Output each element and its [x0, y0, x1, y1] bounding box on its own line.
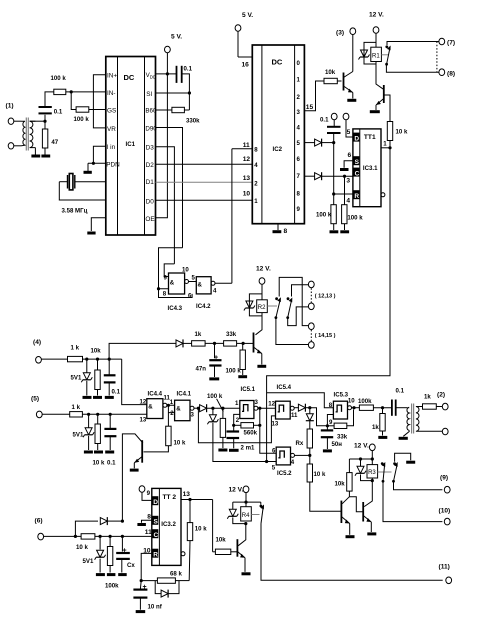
svg-text:&: &	[198, 282, 203, 289]
node junction	[43, 120, 46, 123]
svg-text:10: 10	[243, 191, 251, 198]
svg-text:S: S	[154, 519, 159, 526]
wire	[14, 120, 22, 122]
terminal (4)	[33, 339, 68, 363]
wire cap to 100k	[45, 92, 54, 107]
flip-flop IC3.1	[353, 129, 385, 207]
resistor 1k input4	[68, 345, 83, 362]
node junction	[244, 522, 247, 525]
svg-text:R2: R2	[258, 305, 266, 311]
svg-text:100k: 100k	[105, 583, 119, 590]
svg-text:B60: B60	[145, 107, 157, 114]
svg-text:IC5.4: IC5.4	[277, 384, 292, 391]
svg-text:&: &	[176, 406, 181, 413]
transistor Q5 R4 driver	[237, 524, 245, 572]
ground 100k	[238, 375, 247, 378]
svg-text:(1): (1)	[6, 103, 14, 110]
svg-text:8: 8	[147, 513, 151, 520]
transistor Q3 R2 driver	[243, 333, 262, 365]
svg-text:10 k: 10 k	[195, 526, 207, 533]
svg-text:12 V.: 12 V.	[354, 443, 369, 450]
svg-text:C: C	[154, 532, 159, 539]
capacitor 0.1 coupling	[392, 388, 407, 416]
resistor 10k base R1 driver	[324, 69, 342, 84]
wire	[30, 120, 45, 122]
resistor 100k on IN-	[51, 75, 67, 95]
ground PDN	[84, 171, 92, 174]
svg-text:10 nf: 10 nf	[148, 604, 163, 611]
pin 15 wire	[304, 81, 324, 111]
node junction	[242, 342, 245, 345]
resistor 10k input5	[93, 414, 105, 466]
wire jog to pin9 node	[310, 408, 328, 426]
svg-text:0.1: 0.1	[184, 66, 193, 73]
capacitor 0.1 input5	[104, 414, 116, 466]
ground	[84, 451, 93, 454]
terminal circle (1) bottom	[8, 143, 14, 149]
relay R4 link	[251, 514, 259, 516]
node junction	[188, 91, 191, 94]
ground	[87, 232, 95, 235]
ground Q5	[242, 572, 251, 575]
svg-text:0.1: 0.1	[320, 117, 329, 124]
svg-text:0.1: 0.1	[107, 460, 116, 467]
svg-text:DC: DC	[272, 58, 283, 67]
svg-text:10k: 10k	[216, 537, 227, 544]
12V supply circle R3	[354, 443, 375, 465]
resistor 1k series	[192, 331, 206, 346]
svg-text:(7): (7)	[447, 40, 455, 47]
svg-text:13: 13	[243, 175, 251, 182]
node junction	[166, 72, 169, 75]
transistor Q6	[341, 497, 363, 535]
node junction	[99, 535, 102, 538]
svg-text:(8): (8)	[447, 71, 455, 78]
node junction	[108, 358, 111, 361]
svg-text:4: 4	[254, 162, 258, 169]
ground	[340, 230, 349, 233]
node junction	[211, 407, 214, 410]
capacitor 2m1	[227, 432, 256, 452]
svg-text:5 V.: 5 V.	[242, 12, 253, 19]
svg-text:8: 8	[163, 291, 167, 298]
wire Q rail down	[267, 148, 390, 462]
resistor 10k collector load	[335, 459, 353, 497]
svg-text:(10): (10)	[439, 508, 451, 515]
svg-text:12 V.: 12 V.	[256, 266, 271, 273]
resistor 100k left	[316, 205, 336, 230]
wire	[87, 163, 89, 171]
svg-text:100 k: 100 k	[226, 368, 242, 375]
resistor 1k output	[423, 394, 443, 410]
svg-text:D90: D90	[145, 126, 157, 133]
wire to C pin	[95, 535, 152, 537]
ground IC2 pin 8	[273, 224, 288, 235]
wire IN-	[66, 91, 106, 93]
svg-text:GS: GS	[107, 108, 116, 115]
node junction	[258, 424, 261, 427]
relay R1 contact	[385, 42, 439, 73]
wire Vdd	[156, 73, 177, 75]
relay R3 contact arms	[381, 462, 443, 522]
ground 2m1	[229, 449, 239, 452]
IC5.4 schmitt trigger	[268, 384, 298, 428]
svg-text:47: 47	[51, 139, 58, 146]
ground T primary	[399, 437, 408, 440]
svg-text:C: C	[355, 170, 360, 177]
diode VD R2 clamp	[244, 294, 262, 316]
resistor 100k on GS	[74, 107, 90, 123]
svg-text:R4: R4	[242, 513, 250, 519]
ground	[31, 155, 40, 158]
transistor Q2 R1 driver	[376, 85, 390, 122]
wire	[305, 407, 309, 409]
gate IC4.2	[188, 275, 217, 311]
svg-text:12: 12	[140, 399, 147, 406]
svg-text:(2): (2)	[437, 392, 445, 399]
svg-text:(9): (9)	[440, 475, 448, 482]
node junction	[244, 501, 247, 504]
wire IC5.1 out to IC5.4	[258, 407, 276, 409]
wire R4 top bracket	[233, 501, 261, 503]
ground	[330, 230, 339, 233]
diode VD series K	[200, 404, 207, 412]
node junction	[332, 141, 335, 144]
svg-text:10 k: 10 k	[93, 460, 105, 467]
ground Q6	[346, 535, 355, 538]
svg-text:0.1: 0.1	[112, 389, 121, 396]
resistor 10k base R4	[213, 537, 238, 555]
ground	[41, 155, 50, 158]
flip-flop IC3.2	[152, 488, 185, 565]
svg-text:5: 5	[272, 464, 276, 471]
terminal (7)	[439, 38, 455, 46]
svg-text:5V1: 5V1	[73, 432, 84, 439]
svg-text:IC2: IC2	[273, 146, 283, 153]
svg-text:IC4.4: IC4.4	[148, 391, 163, 398]
ground	[118, 573, 127, 576]
5V supply circle IC2	[235, 12, 253, 69]
svg-text:2: 2	[170, 410, 174, 417]
resistor 10k pullup	[387, 122, 408, 148]
resistor 10k gate pulldown	[144, 426, 186, 452]
svg-text:S: S	[355, 159, 360, 166]
svg-text:12: 12	[268, 401, 275, 408]
zener ZS clamp	[207, 408, 266, 461]
svg-text:68 k: 68 k	[170, 571, 182, 578]
diode VD bypass	[75, 517, 122, 536]
wire Q output pin 1	[381, 141, 390, 148]
node junction	[213, 342, 216, 345]
svg-text:10: 10	[182, 267, 189, 274]
svg-text:10 k: 10 k	[314, 471, 326, 478]
12V supply circle R2	[256, 266, 271, 300]
node junction	[85, 358, 88, 361]
node junction	[109, 413, 112, 416]
svg-text:11: 11	[291, 412, 298, 419]
node junction	[188, 498, 191, 501]
wire GS	[89, 109, 106, 111]
svg-text:5: 5	[347, 129, 351, 136]
svg-text:D: D	[354, 135, 359, 142]
wire	[237, 342, 244, 344]
svg-text:(3): (3)	[336, 30, 344, 37]
svg-text:100 k: 100 k	[207, 393, 223, 400]
wire	[71, 92, 76, 110]
wire to D pin	[346, 120, 353, 137]
resistor 10k timing	[187, 500, 207, 581]
ground 100k	[218, 449, 227, 452]
resistor 100k with leader	[207, 393, 226, 448]
wire to C pin	[322, 175, 353, 177]
svg-text:10 k: 10 k	[76, 544, 88, 551]
svg-text:(6): (6)	[35, 518, 43, 525]
wire osc ground pin	[91, 218, 106, 231]
resistor 100k right	[342, 205, 364, 230]
ground S pin	[340, 152, 353, 170]
svg-text:10 k: 10 k	[396, 129, 408, 136]
terminal (6)	[35, 518, 82, 540]
crystal ZQ 3.58 MHz	[59, 174, 106, 215]
wire D90 net to gate inputs	[159, 248, 193, 298]
wire zener line to pin5	[267, 461, 277, 463]
svg-text:560k: 560k	[244, 430, 258, 437]
svg-text:100 k: 100 k	[347, 215, 363, 222]
svg-text:33k: 33k	[226, 331, 237, 338]
node junction	[167, 404, 170, 407]
terminal (11)	[439, 564, 452, 584]
resistor 1k shunt	[372, 408, 385, 436]
svg-text:VR: VR	[107, 126, 116, 133]
wire pin13 hook from IC4.1 out	[198, 408, 275, 443]
capacitor 47n	[196, 343, 222, 377]
capacitor 0.1 input	[39, 107, 63, 121]
ground Q3	[257, 365, 266, 368]
resistor 33k series	[224, 331, 237, 346]
capacitor 50n	[321, 426, 342, 449]
svg-text:2 m1: 2 m1	[241, 445, 256, 452]
wire Q to base resistor	[212, 500, 214, 552]
svg-text:2: 2	[236, 417, 240, 424]
resistor 68k	[141, 571, 189, 584]
svg-text:5V1: 5V1	[83, 558, 94, 565]
terminal (10)	[439, 508, 451, 525]
ground 50n	[323, 449, 332, 452]
wire OE to 5V rail	[156, 74, 168, 218]
svg-text:16: 16	[242, 62, 250, 69]
svg-text:&: &	[148, 404, 153, 411]
zener 5V1 input6	[83, 536, 106, 572]
svg-text:10k: 10k	[335, 481, 346, 488]
svg-text:0.1: 0.1	[396, 388, 405, 395]
ground	[96, 573, 105, 576]
node junction	[96, 358, 99, 361]
node junction	[371, 479, 374, 482]
node junction	[381, 406, 384, 409]
svg-text:IC4.3: IC4.3	[168, 305, 183, 312]
test point circle 2	[343, 113, 349, 120]
terminal (5)	[31, 396, 70, 418]
svg-text:IC5.1: IC5.1	[241, 386, 256, 393]
node junction	[121, 535, 124, 538]
node junction	[359, 457, 362, 460]
terminal (2)	[437, 392, 448, 410]
wire Q output IC3.2	[181, 491, 213, 500]
node junction	[258, 407, 261, 410]
ground Q2	[370, 110, 380, 113]
svg-text:100 k: 100 k	[316, 212, 332, 219]
node junction	[157, 287, 160, 290]
wire IC4.2 out to pin 11	[232, 149, 252, 284]
terminal circle (1) top	[8, 118, 14, 124]
diode VD series K1	[298, 404, 305, 412]
capacitor Cx	[116, 536, 135, 572]
node junction	[265, 460, 268, 463]
transistor Q1 driver	[344, 72, 353, 99]
ground 10nf	[136, 610, 146, 613]
wire D1 to IC2	[156, 181, 253, 183]
ground Q4	[130, 469, 139, 472]
resistor Rx	[296, 429, 313, 464]
capacitor 0.1 at D input	[327, 127, 341, 143]
svg-text:DD: DD	[150, 75, 157, 80]
svg-text:R: R	[354, 193, 359, 200]
wire R2 to Q3	[256, 313, 263, 335]
svg-text:11: 11	[243, 142, 250, 149]
IC5.3 schmitt trigger	[329, 392, 356, 427]
svg-text:PDN: PDN	[106, 161, 120, 168]
diode VD pin5	[315, 139, 322, 147]
svg-text:IN-: IN-	[107, 90, 116, 97]
resistor 100k input6	[105, 536, 119, 589]
terminal circles (12,13)	[308, 281, 335, 310]
wire	[14, 145, 22, 147]
svg-text:11: 11	[145, 529, 152, 536]
svg-text:330k: 330k	[186, 118, 200, 125]
svg-text:IC1: IC1	[126, 141, 136, 148]
svg-text:12 V.: 12 V.	[229, 487, 244, 494]
svg-text:4: 4	[346, 198, 350, 205]
svg-text:3.58 МГц: 3.58 МГц	[62, 208, 88, 215]
svg-text:D0: D0	[146, 198, 155, 205]
transistor Q4 discharge	[122, 434, 142, 521]
wire	[322, 142, 334, 144]
svg-text:( 14,15 ): ( 14,15 )	[315, 333, 336, 339]
wire D0 to IC2	[156, 199, 253, 201]
wire IC4.1 out	[194, 407, 199, 409]
node junction	[308, 454, 311, 457]
node junction	[308, 406, 311, 409]
wire IC4.2 output	[215, 282, 232, 284]
wire IN+ to VR tie	[93, 75, 105, 128]
svg-text:10: 10	[348, 398, 355, 405]
12V supply circle R4	[229, 486, 249, 507]
node junction	[70, 90, 73, 93]
ground 1k	[378, 436, 387, 439]
node junction	[326, 424, 329, 427]
svg-text:5V1: 5V1	[71, 375, 82, 382]
wire IC5.1 out down to IC5.2 pin6	[260, 408, 276, 453]
resistor 10k input6	[76, 534, 95, 551]
relay R3 contact bracket	[395, 453, 416, 462]
svg-text:TT1: TT1	[364, 134, 376, 141]
svg-text:12 V.: 12 V.	[369, 12, 384, 19]
resistor 10k input4	[91, 348, 102, 396]
wire to IC5.1	[207, 407, 240, 409]
svg-text:50н: 50н	[332, 441, 343, 448]
zener 5V1 input4	[71, 359, 93, 395]
svg-text:D1: D1	[146, 179, 155, 186]
terminal circle out	[442, 428, 448, 435]
terminal (9)	[440, 475, 450, 494]
svg-text:1 k: 1 k	[72, 404, 81, 411]
ground	[83, 396, 92, 399]
svg-text:10 k: 10 k	[174, 440, 186, 447]
wire Q branch to IC5.3 pin8	[267, 393, 334, 408]
wire relay to Q2	[376, 64, 384, 90]
node junction	[221, 407, 224, 410]
relay coil R1	[371, 47, 382, 64]
IC converter IC1	[106, 57, 158, 236]
wire pin7 out	[304, 175, 314, 177]
wire	[83, 358, 122, 360]
terminal circles (14,15)	[308, 323, 335, 348]
wire	[82, 413, 146, 415]
svg-text:13: 13	[272, 421, 279, 428]
12V supply circle R1	[369, 12, 384, 48]
wire (4) node to IC4.4 pin12	[122, 359, 147, 405]
wire pin9 hook	[327, 415, 333, 426]
wire B60	[156, 109, 172, 111]
svg-text:100 k: 100 k	[51, 75, 67, 82]
wire (4) net up and right	[109, 343, 176, 359]
ground S pin IC3.2	[137, 513, 151, 524]
svg-text:IC4.2: IC4.2	[196, 303, 211, 310]
svg-text:1: 1	[383, 141, 387, 148]
ground	[93, 396, 102, 399]
wire cap to SI	[156, 74, 190, 110]
svg-text:1: 1	[170, 399, 174, 406]
wire gate out node	[167, 405, 175, 426]
svg-text:IC4.1: IC4.1	[177, 391, 192, 398]
svg-text:(5): (5)	[31, 396, 39, 403]
svg-text:D3: D3	[146, 145, 155, 152]
resistor 100k output	[358, 398, 392, 411]
zener VD R3 clamp	[355, 459, 372, 481]
resistor 33k feedback	[327, 410, 353, 441]
node junction	[96, 413, 99, 416]
resistor 1k input5	[70, 404, 83, 417]
svg-text:I in: I in	[107, 144, 116, 151]
svg-text:IC3.2: IC3.2	[161, 521, 176, 528]
svg-text:Rx: Rx	[296, 440, 304, 447]
wire IC5.2 out	[295, 454, 310, 456]
ground Q1	[347, 99, 356, 102]
svg-text:13: 13	[140, 417, 147, 424]
svg-text:IN+: IN+	[107, 73, 117, 80]
svg-text:1: 1	[254, 198, 258, 205]
relay R4 contact	[260, 502, 443, 580]
5V supply circle IC1	[165, 34, 183, 74]
svg-text:100 k: 100 k	[74, 116, 90, 123]
transistor Q7	[363, 502, 371, 532]
gate IC4.1	[170, 391, 195, 421]
transformer T output	[403, 404, 422, 437]
resistor 560k feedback	[234, 423, 260, 437]
resistor 10k to base	[307, 464, 341, 511]
IC5.2 schmitt trigger	[272, 447, 295, 477]
svg-text:2: 2	[254, 181, 258, 188]
